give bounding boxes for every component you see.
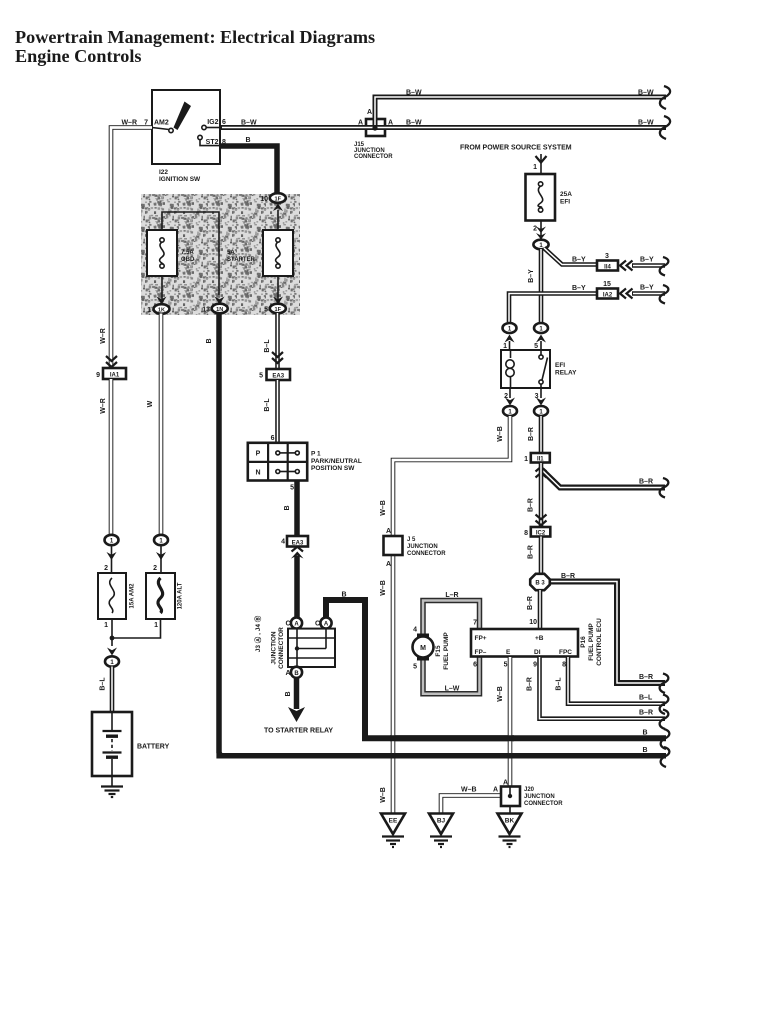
svg-text:3: 3	[605, 253, 609, 260]
fuel pump return wire L-W	[423, 657, 480, 694]
arrow into circle below pin2	[505, 398, 515, 406]
ground rail repaint over crossings	[390, 738, 514, 756]
label W-R vertical upper	[100, 328, 107, 344]
junction connector J3/J4 block	[253, 615, 335, 669]
ignition pin AM2 label	[121, 120, 168, 127]
break symbol rail upper	[661, 729, 670, 749]
svg-text:A: A	[285, 670, 290, 677]
svg-text:B–Y: B–Y	[572, 285, 586, 292]
junction connector J5 box	[384, 528, 447, 568]
break symbol B-R branch	[660, 478, 669, 498]
wire B-W lower from IG2 through J15 to break	[220, 125, 666, 130]
svg-text:FPC: FPC	[559, 649, 572, 656]
connector IA2	[597, 281, 618, 299]
wire B-Y to II4	[544, 248, 597, 265]
svg-text:B–R: B–R	[561, 573, 575, 580]
svg-text:5: 5	[504, 662, 508, 669]
svg-text:RELAY: RELAY	[555, 370, 577, 377]
svg-text:5: 5	[413, 664, 417, 671]
relay pin stubs bottom	[504, 388, 541, 400]
arrow into 1N oval	[215, 297, 225, 305]
svg-text:+B: +B	[535, 635, 544, 642]
svg-text:B: B	[206, 338, 213, 343]
wire joining fuses to battery node	[110, 619, 161, 646]
svg-text:A: A	[503, 780, 508, 787]
ground rail B upper	[362, 730, 666, 739]
svg-text:2: 2	[533, 226, 537, 233]
svg-text:FP–: FP–	[475, 649, 487, 656]
svg-text:2: 2	[104, 565, 108, 572]
wire B-R branch to break right	[542, 470, 665, 488]
circle node above battery	[105, 656, 119, 666]
break symbol B-W upper	[660, 86, 670, 109]
wire from J20 to BK ground	[509, 806, 511, 814]
svg-text:E: E	[506, 649, 511, 656]
wire from EFI fuse to node	[533, 221, 546, 241]
arrow into 1K oval	[157, 297, 167, 305]
fuse 120A ALT	[146, 565, 184, 629]
break symbol B-R from DI	[660, 710, 669, 730]
connector II4	[597, 253, 618, 271]
node 1F top oval feed arrow	[273, 204, 283, 212]
svg-text:1: 1	[104, 622, 108, 629]
EFI relay U1	[501, 350, 577, 388]
svg-text:EFI: EFI	[560, 199, 570, 206]
node A circle right on J4	[315, 617, 332, 628]
wire B-L from 1F oval to EA3	[264, 313, 278, 369]
svg-text:1: 1	[524, 456, 528, 463]
svg-text:POSITION SW: POSITION SW	[311, 465, 355, 472]
wire from 1F oval to starter fuse	[277, 210, 279, 232]
wire W-B from ECU E to J20	[497, 657, 510, 787]
svg-text:I22: I22	[159, 169, 168, 176]
svg-text:120A ALT: 120A ALT	[178, 582, 184, 609]
wire W-R from AM2 down to IA1	[111, 128, 152, 369]
svg-text:B–W: B–W	[638, 90, 654, 97]
chevrons into IA2	[620, 289, 633, 299]
svg-text:EA3: EA3	[272, 374, 284, 380]
wire B from ST2 down to fuse block	[220, 137, 277, 193]
fuse 25A EFI	[526, 174, 573, 221]
wire B-R from II1 to IC2	[528, 463, 542, 527]
ignition pin ST2	[198, 135, 226, 146]
svg-text:BATTERY: BATTERY	[137, 744, 170, 751]
svg-text:W: W	[147, 400, 154, 407]
stub wires into fuses	[112, 545, 162, 573]
wires from fuses down to ovals	[162, 276, 278, 303]
wire W-B from J20 to BJ ground	[441, 787, 501, 815]
svg-text:B: B	[294, 671, 299, 677]
break symbol B-Y row2	[660, 285, 669, 304]
svg-text:4: 4	[413, 627, 417, 634]
FROM POWER SOURCE SYSTEM label	[460, 145, 572, 152]
svg-text:Powertrain Management: Electri: Powertrain Management: Electrical Diagra…	[15, 27, 375, 47]
svg-text:B–R: B–R	[528, 427, 535, 441]
svg-text:B–R: B–R	[639, 479, 653, 486]
svg-text:W–B: W–B	[380, 787, 387, 803]
svg-text:FUEL PUMP: FUEL PUMP	[443, 632, 450, 670]
oval 1N	[202, 304, 227, 314]
break symbol rail lower	[661, 747, 670, 767]
connector EA3 pin4 box	[281, 536, 308, 547]
break symbol B-R from B3	[660, 674, 669, 694]
svg-text:EE: EE	[389, 818, 398, 825]
svg-text:B–L: B–L	[639, 695, 653, 702]
svg-text:W–R: W–R	[100, 328, 107, 344]
svg-text:B–L: B–L	[264, 398, 271, 412]
svg-text:CONTROL ECU: CONTROL ECU	[596, 618, 603, 666]
wire B-L from EA3 to P1	[264, 380, 278, 443]
ignition switch I22 box	[152, 90, 220, 183]
svg-text:CONNECTOR: CONNECTOR	[524, 801, 563, 807]
fuse 5A STARTER	[227, 230, 293, 276]
fuel pump control ECU P16	[471, 618, 603, 666]
svg-text:8: 8	[524, 530, 528, 537]
svg-text:1F: 1F	[275, 196, 282, 202]
svg-text:A: A	[358, 120, 363, 127]
circle node below pin2	[503, 406, 517, 416]
break symbol B-L	[660, 695, 669, 715]
oval 1F lower	[264, 304, 286, 314]
node A circle left on J3	[285, 617, 302, 628]
wire W from 1K down to circle	[147, 314, 161, 535]
svg-text:B: B	[284, 505, 291, 510]
chevrons up into II1	[536, 467, 547, 478]
svg-text:STARTER: STARTER	[227, 257, 256, 263]
svg-text:6: 6	[222, 119, 226, 126]
wire W-R from IA1 down to circle	[100, 379, 111, 534]
wire to OBD fuse gamma path	[162, 212, 219, 295]
svg-text:25A: 25A	[560, 191, 572, 198]
svg-text:B–Y: B–Y	[640, 257, 654, 264]
park/neutral position switch P1	[248, 443, 362, 481]
ignition pin IG2	[202, 119, 226, 130]
svg-text:W–B: W–B	[497, 686, 504, 702]
ignition key lever	[152, 102, 191, 133]
svg-text:B–W: B–W	[406, 120, 422, 127]
wire B-Y row2 to break	[632, 285, 665, 294]
svg-text:B–Y: B–Y	[640, 285, 654, 292]
svg-text:W–B: W–B	[380, 580, 387, 596]
svg-text:B: B	[341, 592, 346, 599]
svg-text:7: 7	[473, 620, 477, 627]
wire B from P1 pin5 to EA3	[284, 481, 297, 537]
svg-text:IGNITION SW: IGNITION SW	[159, 176, 201, 183]
svg-text:DI: DI	[534, 649, 541, 656]
svg-text:1K: 1K	[158, 307, 165, 313]
svg-text:IG2: IG2	[207, 119, 218, 126]
svg-text:B–L: B–L	[556, 677, 563, 691]
svg-text:A: A	[367, 109, 372, 116]
svg-text:B–W: B–W	[241, 120, 257, 127]
svg-text:J 5: J 5	[407, 537, 416, 543]
wire B-W upper branch from J15	[375, 97, 666, 128]
svg-text:5: 5	[290, 485, 294, 492]
node circle 1 below EFI fuse	[533, 240, 548, 250]
wire B-R thick from B3 right to break	[547, 573, 665, 683]
svg-text:5: 5	[259, 373, 263, 380]
svg-text:II1: II1	[537, 457, 544, 463]
svg-text:B: B	[285, 691, 292, 696]
connector II1	[524, 453, 550, 463]
svg-text:5A: 5A	[227, 250, 235, 256]
svg-text:BK: BK	[505, 818, 515, 825]
wire B-R from IC2 to B3	[528, 537, 542, 575]
svg-text:OBD: OBD	[181, 257, 195, 263]
fuel pump feed wire L-R	[423, 592, 480, 634]
fuse 7.5A OBD	[147, 230, 195, 276]
svg-text:A: A	[294, 622, 299, 628]
svg-text:1F: 1F	[275, 307, 282, 313]
svg-text:CONNECTOR: CONNECTOR	[354, 154, 393, 160]
svg-text:1N: 1N	[216, 307, 223, 313]
svg-text:PARK/NEUTRAL: PARK/NEUTRAL	[311, 458, 362, 465]
circle node above AM2 fuse	[105, 535, 119, 560]
svg-text:AM2: AM2	[154, 120, 169, 127]
wire label B-W x4	[241, 120, 257, 127]
svg-text:FROM POWER SOURCE SYSTEM: FROM POWER SOURCE SYSTEM	[460, 145, 572, 152]
svg-text:W–R: W–R	[100, 398, 107, 414]
wire B branch from J4 to right rail	[326, 592, 365, 739]
wire B-L from ECU FPC to break	[556, 657, 666, 704]
circle node above ALT fuse	[154, 535, 168, 560]
svg-text:JUNCTION: JUNCTION	[271, 631, 278, 665]
wire B-Y main vertical	[528, 249, 541, 322]
ground BK	[498, 814, 522, 848]
svg-text:BJ: BJ	[437, 818, 446, 825]
ground EE	[381, 814, 405, 848]
break symbol B-W lower	[660, 116, 670, 139]
svg-text:B: B	[245, 137, 250, 144]
arrow into relay circle 5	[536, 335, 546, 343]
svg-text:6: 6	[271, 435, 275, 442]
svg-text:Engine Controls: Engine Controls	[15, 46, 142, 66]
splice octagon B3	[530, 574, 550, 590]
svg-text:M: M	[420, 645, 426, 652]
svg-text:B–R: B–R	[639, 674, 653, 681]
relay pin stubs top	[503, 341, 541, 350]
svg-text:B–W: B–W	[406, 90, 422, 97]
svg-text:10: 10	[260, 196, 268, 203]
wire B-R from relay pin3 to II1	[528, 416, 541, 454]
svg-text:B–L: B–L	[100, 677, 107, 691]
svg-text:9: 9	[96, 372, 100, 379]
arrow into battery circle	[107, 648, 117, 656]
arrow into 1F oval lower	[273, 297, 283, 305]
svg-text:B–R: B–R	[528, 498, 535, 512]
svg-text:A: A	[324, 622, 329, 628]
svg-text:8: 8	[562, 662, 566, 669]
svg-text:ST2: ST2	[206, 139, 219, 146]
fuse block hatched panel	[141, 194, 300, 315]
connector EA3 pin5 box	[259, 369, 290, 380]
circle node relay pin1	[503, 323, 517, 333]
wire B-R from B3 to ECU +B	[527, 590, 540, 629]
wire B from 1N down and right as ground rail	[206, 313, 666, 756]
svg-text:FP+: FP+	[475, 635, 487, 642]
feed arrow into EFI fuse	[533, 154, 546, 174]
svg-text:IA2: IA2	[603, 293, 613, 299]
svg-text:P16: P16	[580, 636, 587, 648]
chevron arrows into IA1	[106, 356, 117, 367]
svg-text:FUEL PUMP: FUEL PUMP	[588, 623, 595, 661]
fuse 15A AM2	[98, 565, 136, 629]
svg-text:F15: F15	[435, 645, 442, 657]
svg-text:L–W: L–W	[445, 686, 460, 693]
svg-text:6: 6	[473, 662, 477, 669]
J15 labels	[354, 109, 393, 160]
svg-text:IA1: IA1	[110, 373, 120, 379]
ground BJ	[429, 814, 453, 848]
oval 1K	[147, 304, 169, 314]
svg-text:P 1: P 1	[311, 451, 321, 458]
svg-text:L–R: L–R	[445, 592, 458, 599]
svg-text:B–R: B–R	[527, 677, 534, 691]
wire B-Y from chevrons to break	[632, 257, 665, 266]
fuel pump motor F15	[413, 627, 451, 671]
node 1F top oval	[260, 193, 286, 203]
svg-text:A: A	[386, 561, 391, 568]
svg-text:1: 1	[533, 164, 537, 171]
svg-text:P: P	[256, 451, 261, 458]
svg-text:CONNECTOR: CONNECTOR	[407, 551, 446, 557]
node splice in J15	[372, 125, 377, 130]
svg-text:EFI: EFI	[555, 362, 565, 369]
junction connector J20 box	[501, 780, 563, 808]
svg-text:J3 Ⓐ , J4 Ⓑ: J3 Ⓐ , J4 Ⓑ	[253, 615, 262, 652]
svg-text:II4: II4	[604, 265, 611, 271]
svg-text:13: 13	[202, 307, 210, 314]
chevrons into II4	[620, 261, 633, 271]
svg-text:B–R: B–R	[639, 710, 653, 717]
svg-text:7.5A: 7.5A	[181, 250, 194, 256]
connector IC2	[524, 527, 550, 537]
battery ground	[101, 776, 123, 797]
wire B to starter relay with arrow	[264, 678, 333, 735]
svg-text:A: A	[386, 528, 391, 535]
svg-text:C: C	[285, 621, 290, 628]
svg-text:JUNCTION: JUNCTION	[524, 794, 555, 800]
chevrons down into IC2	[536, 515, 547, 526]
svg-text:B: B	[642, 730, 647, 737]
svg-text:10: 10	[529, 619, 537, 626]
svg-text:4: 4	[281, 539, 285, 546]
svg-text:15A AM2: 15A AM2	[130, 583, 136, 609]
circle node below pin3	[534, 406, 548, 416]
svg-text:1: 1	[154, 622, 158, 629]
svg-text:EA3: EA3	[292, 541, 304, 547]
svg-text:W–B: W–B	[461, 787, 477, 794]
label B lower rail	[642, 747, 647, 754]
svg-text:B 3: B 3	[535, 581, 545, 587]
svg-text:B–W: B–W	[638, 120, 654, 127]
wire B from EA3 to J3 connector	[294, 556, 300, 618]
svg-text:9: 9	[533, 662, 537, 669]
svg-text:B–R: B–R	[527, 596, 534, 610]
svg-text:5: 5	[534, 343, 538, 350]
wire B-Y row2 to IA2	[509, 285, 597, 322]
svg-text:CONNECTOR: CONNECTOR	[278, 627, 285, 669]
svg-text:N: N	[255, 470, 260, 477]
break symbol B-Y row1	[660, 257, 669, 276]
svg-text:2: 2	[153, 565, 157, 572]
svg-text:B–Y: B–Y	[572, 257, 586, 264]
arrows into EA3 pin4	[291, 547, 304, 559]
svg-text:W–B: W–B	[380, 500, 387, 516]
svg-text:B: B	[642, 747, 647, 754]
connector IA1 box	[96, 368, 126, 379]
svg-text:1: 1	[503, 343, 507, 350]
svg-text:B–L: B–L	[264, 339, 271, 353]
junction connector J15 box	[366, 119, 385, 136]
svg-text:JUNCTION: JUNCTION	[407, 544, 438, 550]
svg-text:IC2: IC2	[536, 531, 546, 537]
wire W-B from relay pin2 to J5 and EE ground	[380, 416, 510, 814]
svg-text:A: A	[493, 787, 498, 794]
battery	[92, 712, 170, 776]
svg-text:W–B: W–B	[497, 426, 504, 442]
svg-text:B–Y: B–Y	[528, 269, 535, 283]
wire B-R from ECU DI to break	[527, 657, 666, 719]
svg-text:B–R: B–R	[528, 545, 535, 559]
node B circle bottom of J3	[285, 667, 302, 678]
wire B-L to battery	[100, 667, 113, 713]
svg-text:C: C	[315, 621, 320, 628]
chevron arrows into EA3 upper	[272, 352, 283, 363]
svg-text:J20: J20	[524, 787, 535, 793]
svg-text:5: 5	[264, 307, 268, 314]
svg-text:A: A	[388, 120, 393, 127]
svg-text:TO STARTER RELAY: TO STARTER RELAY	[264, 728, 333, 735]
circle node relay pin5	[534, 323, 548, 333]
svg-text:1: 1	[147, 307, 151, 314]
arrow into circle below pin3	[536, 398, 546, 406]
arrow into relay circle 1	[505, 335, 515, 343]
svg-text:15: 15	[603, 281, 611, 288]
